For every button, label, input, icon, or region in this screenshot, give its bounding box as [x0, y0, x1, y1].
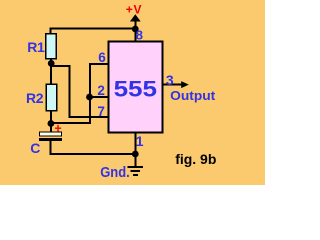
- svg-text:6: 6: [98, 50, 106, 65]
- wire node A to R2 top: [50, 63, 52, 84]
- ground symbol bar 3: [133, 174, 138, 176]
- svg-text:7: 7: [97, 104, 105, 119]
- wire capacitor to ground node (horizontal): [50, 153, 137, 155]
- svg-text:555: 555: [114, 77, 157, 102]
- +V arrow symbol: [130, 14, 141, 21]
- svg-text:Gnd.: Gnd.: [100, 165, 130, 181]
- svg-text:2: 2: [97, 83, 105, 98]
- capacitor C top plate: [40, 132, 62, 136]
- svg-text:3: 3: [166, 72, 174, 88]
- wire +V node to R1 top (horizontal): [49, 28, 135, 30]
- ground symbol bar 2: [130, 170, 140, 172]
- junction dot node B (R2/C/pins 6+2): [48, 120, 55, 127]
- junction dot +V node: [132, 26, 139, 33]
- junction dot node A (R1/R2/pin7): [48, 60, 55, 67]
- svg-text:1: 1: [136, 133, 144, 149]
- svg-text:R1: R1: [27, 39, 45, 55]
- wire node A to pin 7 elbow (horizontal): [51, 65, 70, 67]
- capacitor C bottom plate: [39, 138, 62, 141]
- svg-text:8: 8: [136, 28, 143, 43]
- svg-text:fig. 9b: fig. 9b: [175, 151, 216, 167]
- wire down into R1: [49, 28, 51, 35]
- wire R2 bottom to node B: [50, 111, 52, 124]
- ground symbol bar 1: [128, 166, 144, 168]
- resistor R2: [46, 84, 56, 110]
- wire into pin 7 (horizontal): [68, 116, 108, 118]
- svg-text:+V: +V: [126, 2, 143, 16]
- junction dot pin 2 node: [86, 94, 93, 101]
- op-amp U1 555 timer IC body: [109, 42, 163, 133]
- wire pin 3 output (horizontal): [163, 84, 183, 86]
- wire into pin 2 (horizontal): [89, 96, 109, 98]
- svg-text:R2: R2: [26, 90, 44, 106]
- wire pin 7 elbow vertical: [68, 65, 70, 118]
- wire node B to capacitor top: [50, 124, 52, 133]
- svg-text:Output: Output: [170, 89, 216, 103]
- resistor R1: [46, 34, 56, 59]
- wire +V stem to pin 8: [134, 21, 136, 42]
- junction dot ground node: [132, 151, 139, 158]
- pin 3 output arrowhead: [181, 81, 189, 88]
- wire R1 bottom to node A: [50, 59, 52, 64]
- wire pins 6/2 riser vertical: [89, 63, 91, 124]
- wire capacitor bottom down: [50, 141, 52, 155]
- wire node B to pins 6/2 riser (horizontal): [51, 122, 91, 124]
- wire into pin 6 (horizontal): [89, 63, 109, 65]
- wire pin 1 stem to ground: [134, 133, 136, 167]
- svg-text:C: C: [30, 140, 40, 156]
